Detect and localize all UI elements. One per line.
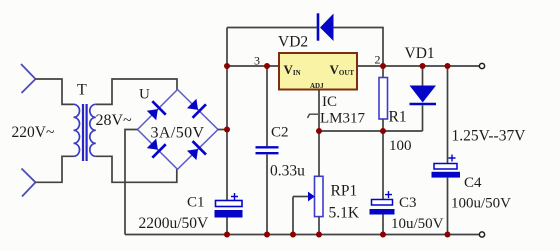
svg-text:U: U bbox=[139, 87, 150, 103]
capacitor C3 bbox=[370, 131, 395, 235]
svg-text:T: T bbox=[77, 82, 87, 99]
svg-text:10u/50V: 10u/50V bbox=[391, 216, 444, 232]
svg-text:ADJ: ADJ bbox=[310, 82, 324, 90]
svg-text:100: 100 bbox=[389, 138, 412, 154]
wire bridge right vertex to bus bbox=[218, 129, 227, 131]
bridge diode D-topright bbox=[185, 97, 206, 118]
svg-text:28V~: 28V~ bbox=[96, 112, 133, 129]
output terminal plus bbox=[479, 63, 484, 68]
potentiometer RP1 bbox=[293, 176, 323, 234]
svg-text:3: 3 bbox=[254, 53, 260, 67]
svg-text:3A/50V: 3A/50V bbox=[151, 125, 205, 142]
adj pointer tick bbox=[308, 114, 319, 118]
wire secondary top to bridge top vertex bbox=[96, 79, 177, 104]
svg-text:0.33u: 0.33u bbox=[270, 163, 305, 180]
svg-text:VD1: VD1 bbox=[405, 45, 435, 62]
capacitor C1 bbox=[215, 193, 243, 235]
svg-text:100u/50V: 100u/50V bbox=[451, 196, 511, 212]
svg-text:LM317: LM317 bbox=[320, 110, 366, 126]
svg-text:IC: IC bbox=[322, 94, 337, 110]
svg-text:C2: C2 bbox=[271, 125, 289, 141]
svg-text:1.25V--37V: 1.25V--37V bbox=[452, 128, 527, 145]
svg-text:2: 2 bbox=[375, 53, 381, 67]
transformer T primary winding bbox=[74, 104, 80, 156]
bridge diode D-topleft bbox=[145, 101, 166, 122]
wire negative rail bbox=[125, 234, 479, 236]
transformer T core bbox=[83, 104, 87, 161]
wire input bottom to primary bbox=[36, 156, 74, 182]
output terminal minus bbox=[479, 232, 484, 237]
svg-text:R1: R1 bbox=[389, 109, 407, 126]
wire VD2 branch left bbox=[227, 27, 317, 29]
resistor R1 bbox=[379, 66, 388, 131]
capacitor C4 bbox=[432, 66, 461, 235]
diode VD2 bbox=[318, 13, 334, 41]
wire input top to primary bbox=[36, 79, 74, 104]
svg-text:5.1K: 5.1K bbox=[329, 205, 360, 222]
svg-text:VD2: VD2 bbox=[278, 34, 308, 51]
svg-text:C1: C1 bbox=[187, 195, 205, 211]
bridge diode D-bottomleft bbox=[145, 137, 166, 158]
svg-text:220V~: 220V~ bbox=[12, 124, 55, 141]
op-amp-box IC LM317 bbox=[279, 53, 357, 90]
input terminal J1 top bbox=[21, 64, 36, 93]
wire secondary bottom to bridge bottom vertex bbox=[96, 156, 177, 182]
transformer T secondary winding bbox=[90, 104, 96, 156]
svg-text:RP1: RP1 bbox=[331, 183, 358, 200]
svg-text:C4: C4 bbox=[464, 175, 482, 191]
wire VD2 branch right bbox=[334, 28, 384, 67]
wire vertical bus x227 (VD2 corner down to C1) bbox=[226, 28, 228, 201]
bridge rectifier U diamond outline bbox=[138, 90, 219, 170]
wire bridge left vertex to negative rail bbox=[125, 130, 138, 235]
capacitor C2 bbox=[256, 66, 279, 235]
diode VD1 bbox=[410, 66, 437, 131]
input terminal J2 bottom bbox=[22, 169, 36, 197]
bridge diode D-bottomright bbox=[185, 141, 206, 162]
wire ADJ node line bbox=[319, 130, 423, 132]
svg-text:C3: C3 bbox=[399, 195, 417, 211]
svg-text:2200u/50V: 2200u/50V bbox=[139, 215, 210, 232]
wire main output bus bbox=[227, 65, 479, 67]
wire ADJ pin down to RP1 bbox=[318, 90, 320, 177]
